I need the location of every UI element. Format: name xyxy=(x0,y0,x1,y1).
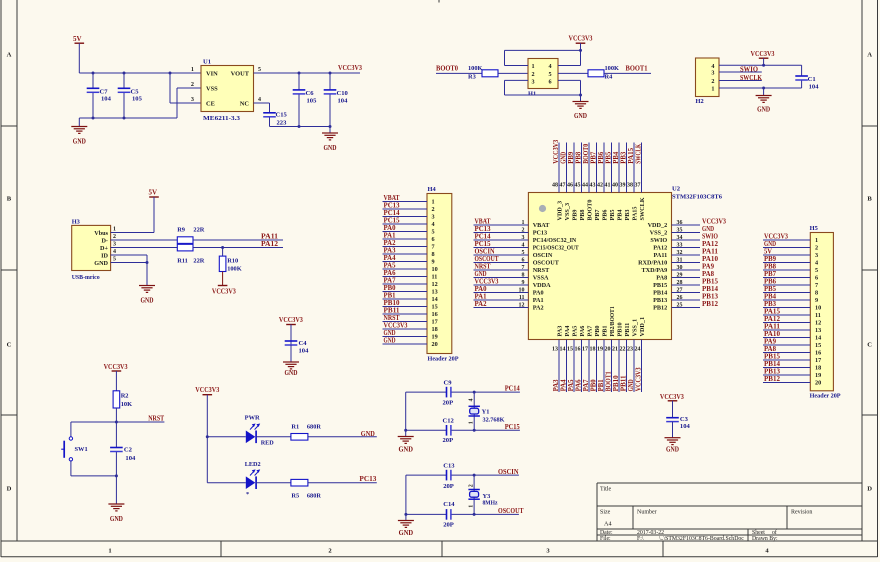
svg-text:BOOT0: BOOT0 xyxy=(436,65,458,73)
net label PA1 U2 left xyxy=(475,294,488,301)
svg-text:22: 22 xyxy=(620,346,626,352)
wire H4 pin 9 net PA4 xyxy=(383,261,428,263)
pin name PB14 U2 xyxy=(653,290,667,297)
wire left rail crystal2 xyxy=(405,475,407,514)
pin name PA5 U2 xyxy=(572,326,579,337)
svg-text:11: 11 xyxy=(432,274,438,281)
pin name PC13 U2 xyxy=(533,230,547,237)
svg-text:H2: H2 xyxy=(696,98,704,105)
net label PB10 H4 pin 15 xyxy=(384,300,401,307)
svg-text:File:: File: xyxy=(600,536,611,542)
net label PA7 U2 bottom xyxy=(583,379,590,392)
svg-text:BOOT0: BOOT0 xyxy=(587,200,594,221)
svg-text:PB5: PB5 xyxy=(609,209,616,220)
svg-text:VBAT: VBAT xyxy=(475,219,491,226)
svg-text:PA8: PA8 xyxy=(764,346,777,353)
svg-text:C15: C15 xyxy=(276,112,288,119)
svg-text:PA4: PA4 xyxy=(560,379,567,392)
svg-text:VCC3V3: VCC3V3 xyxy=(751,50,775,58)
svg-text:R4: R4 xyxy=(605,74,614,81)
svg-text:C10: C10 xyxy=(337,90,349,97)
svg-text:PA12: PA12 xyxy=(764,316,781,323)
svg-text:32.768K: 32.768K xyxy=(483,417,505,424)
svg-text:D-: D- xyxy=(101,237,108,244)
svg-text:GND: GND xyxy=(398,445,413,454)
wire H5 pin 1 net VCC3V3 xyxy=(763,239,810,241)
wire H4 pin 6 net PA1 xyxy=(383,238,428,240)
svg-text:LED2: LED2 xyxy=(245,461,261,468)
LED LED2 xyxy=(245,461,261,498)
svg-text:PA2: PA2 xyxy=(533,305,544,312)
pin number 8 U2 xyxy=(522,273,525,279)
svg-text:GND: GND xyxy=(361,430,375,438)
svg-text:19: 19 xyxy=(432,334,438,341)
net label GND H4 pin 19 xyxy=(384,330,396,337)
net label PA6 U2 bottom xyxy=(575,379,582,392)
svg-text:20P: 20P xyxy=(443,483,454,490)
svg-text:25: 25 xyxy=(677,303,683,309)
svg-text:1: 1 xyxy=(432,199,435,206)
pin name PC15/OSC32_OUT U2 xyxy=(533,245,580,252)
svg-text:41: 41 xyxy=(605,183,611,189)
svg-text:PC14/OSC32_IN: PC14/OSC32_IN xyxy=(533,237,577,244)
net label PA2 H4 pin 7 xyxy=(384,240,397,247)
net label PB1 U2 bottom xyxy=(598,379,605,392)
wire GND up to H1 pin6 xyxy=(558,80,582,96)
net label GND U2 bottom xyxy=(628,379,635,391)
pin name VDD_3 U2 xyxy=(557,201,564,221)
svg-text:PA3: PA3 xyxy=(553,379,560,392)
svg-text:PB11: PB11 xyxy=(624,323,631,337)
wire H5 pin 20 net PB12 xyxy=(763,382,810,384)
svg-text:PC14: PC14 xyxy=(475,234,492,241)
header H2 SWD xyxy=(696,58,720,105)
svg-text:C9: C9 xyxy=(444,379,453,386)
svg-text:SWCLK: SWCLK xyxy=(635,143,642,164)
power port VCC3V3 below R10 xyxy=(212,272,236,296)
MCU U2 STM32F103C8T6 body xyxy=(528,186,722,340)
wire H5 pin 3 net 5V xyxy=(763,254,810,256)
svg-text:NC: NC xyxy=(240,101,250,108)
svg-text:28: 28 xyxy=(677,280,683,286)
svg-text:1: 1 xyxy=(191,66,194,73)
svg-text:PB6: PB6 xyxy=(598,151,605,164)
pin number 3 U2 xyxy=(522,235,525,241)
crystal Y3 xyxy=(468,475,497,514)
svg-text:6: 6 xyxy=(549,78,552,85)
wire NRST xyxy=(116,421,164,423)
svg-text:PA0: PA0 xyxy=(475,286,488,293)
pin number 29 U2 xyxy=(677,273,683,279)
svg-text:VCC3V3: VCC3V3 xyxy=(384,323,409,330)
net label GND U2 right xyxy=(702,226,714,233)
wire U2 pin 46 net PB9 xyxy=(573,143,575,193)
svg-text:PC15: PC15 xyxy=(475,241,492,248)
svg-text:4: 4 xyxy=(113,249,116,255)
svg-text:100K: 100K xyxy=(605,65,620,72)
svg-text:H1: H1 xyxy=(528,91,536,98)
svg-text:Size: Size xyxy=(600,510,611,516)
svg-text:PA15: PA15 xyxy=(628,147,635,164)
wire H5 pin 7 net PB6 xyxy=(763,284,810,286)
wire H5 pin 5 net PB8 xyxy=(763,269,810,271)
svg-text:5V: 5V xyxy=(149,189,158,197)
svg-text:PC13: PC13 xyxy=(384,203,401,210)
svg-text:PC15: PC15 xyxy=(505,423,520,431)
net label PB7 U2 top xyxy=(590,151,597,164)
svg-text:PB1: PB1 xyxy=(384,293,397,300)
svg-text:R5: R5 xyxy=(291,493,299,500)
wire U2 pin 25 net PB12 xyxy=(672,307,701,309)
wire R5 to PC13 label xyxy=(308,482,377,484)
pin name PB15 U2 xyxy=(653,282,667,289)
svg-text:of: of xyxy=(772,529,777,536)
wire U2 pin 1 net VBAT xyxy=(474,224,529,226)
pin name VSS_3 U2 xyxy=(564,203,571,221)
svg-text:PA9: PA9 xyxy=(702,264,715,271)
wire U2 pin 8 net GND xyxy=(474,277,529,279)
svg-text:C12: C12 xyxy=(443,418,455,425)
svg-text:PB9: PB9 xyxy=(572,209,579,220)
svg-text:5: 5 xyxy=(113,257,116,263)
power port VCC3V3 C3 xyxy=(660,393,684,418)
net label PB5 H5 pin 8 xyxy=(764,286,777,293)
pin number 35 U2 xyxy=(677,228,683,234)
wire H1 pin3 to GND xyxy=(505,80,581,95)
svg-text:VBAT: VBAT xyxy=(533,222,551,229)
svg-text:VCC3V3: VCC3V3 xyxy=(104,363,128,371)
svg-text:VIN: VIN xyxy=(206,71,218,78)
svg-text:3: 3 xyxy=(711,70,714,77)
ground GND left xyxy=(71,118,87,146)
pin number 38 U2 xyxy=(627,183,633,189)
svg-text:14: 14 xyxy=(560,346,566,352)
svg-text:9: 9 xyxy=(432,259,435,266)
net label PB14 U2 right xyxy=(702,286,719,293)
svg-text:Vbus: Vbus xyxy=(94,230,108,237)
svg-text:OSCIN: OSCIN xyxy=(498,468,519,476)
svg-text:GND: GND xyxy=(324,144,337,152)
svg-text:PB13: PB13 xyxy=(653,297,667,304)
svg-text:104: 104 xyxy=(101,96,112,103)
svg-text:18: 18 xyxy=(432,326,438,333)
svg-text:GND: GND xyxy=(384,338,396,345)
svg-text:SWCLK: SWCLK xyxy=(740,74,762,82)
svg-text:F:\: F:\ xyxy=(637,536,644,542)
wire H4 pin 18 net VCC3V3 xyxy=(383,328,428,330)
wire U2 pin 28 net PB15 xyxy=(672,284,701,286)
svg-text:17: 17 xyxy=(582,346,588,352)
svg-text:35: 35 xyxy=(677,228,683,234)
capacitor C3 xyxy=(666,416,690,438)
svg-text:43: 43 xyxy=(590,183,596,189)
svg-text:PB9: PB9 xyxy=(568,151,575,164)
wire H5 pin 18 net PB14 xyxy=(763,367,810,369)
net label PA15 H5 pin 11 xyxy=(764,309,781,316)
pin number 5 U2 xyxy=(522,250,525,256)
svg-text:PB4: PB4 xyxy=(613,151,620,164)
wire U2 pin 29 net PA8 xyxy=(672,277,701,279)
svg-text:20P: 20P xyxy=(443,437,454,444)
svg-text:PB3: PB3 xyxy=(624,209,631,220)
wire H4 pin 17 net NRST xyxy=(383,321,428,323)
wire U2 pin 4 net PC15 xyxy=(474,247,529,249)
svg-text:PB7: PB7 xyxy=(590,151,597,164)
pin name PB5 U2 xyxy=(609,209,616,220)
net label PB3 U2 top xyxy=(620,151,627,164)
resistor R9 22R xyxy=(177,227,205,244)
pin name PA3 U2 xyxy=(557,326,564,337)
svg-text:5: 5 xyxy=(258,67,261,73)
net label PC14 xyxy=(505,385,520,393)
svg-text:USB-mrico: USB-mrico xyxy=(72,274,100,281)
net label PA11 USB xyxy=(261,233,279,241)
svg-text:16: 16 xyxy=(575,346,581,352)
wire H4 pin 20 net GND xyxy=(383,343,428,345)
wire U2 pin 35 net GND xyxy=(672,232,701,234)
net label PC15 xyxy=(505,423,520,431)
pin name VSSA U2 xyxy=(533,275,549,282)
svg-text:VCC3V3: VCC3V3 xyxy=(475,279,500,286)
pin number 47 U2 xyxy=(560,183,566,189)
svg-text:31: 31 xyxy=(677,258,683,264)
svg-text:16: 16 xyxy=(815,350,821,357)
net label PA15 U2 top xyxy=(628,147,635,164)
pin name PB2/BOOT1 U2 xyxy=(609,306,616,336)
svg-text:R1: R1 xyxy=(291,424,299,431)
svg-text:17: 17 xyxy=(815,357,821,364)
net label PC13 U2 left xyxy=(475,226,492,233)
svg-text:PA5: PA5 xyxy=(568,379,575,392)
wire H5 pin 2 net GND xyxy=(763,247,810,249)
wire U2 pin 43 net PB7 xyxy=(596,143,598,193)
svg-text:PB6: PB6 xyxy=(602,209,609,220)
svg-text:C4: C4 xyxy=(299,340,308,347)
svg-text:PC15: PC15 xyxy=(384,218,401,225)
ground GND regulator right xyxy=(322,127,338,153)
svg-text:OSCIN: OSCIN xyxy=(475,249,495,256)
pin number 10 U2 xyxy=(519,288,525,294)
svg-text:GND: GND xyxy=(574,112,587,120)
svg-text:VCC3V3: VCC3V3 xyxy=(635,367,642,392)
svg-text:PA11: PA11 xyxy=(654,252,668,259)
LED PWR red xyxy=(207,415,274,447)
svg-text:48: 48 xyxy=(552,183,558,189)
svg-text:10: 10 xyxy=(815,305,821,312)
svg-text:2: 2 xyxy=(469,484,475,487)
pin number 36 U2 xyxy=(677,220,683,226)
svg-text:PB5: PB5 xyxy=(605,151,612,164)
svg-text:15: 15 xyxy=(432,304,438,311)
pin number 16 U2 xyxy=(575,346,581,352)
svg-text:U2: U2 xyxy=(672,186,681,193)
svg-text:PA1: PA1 xyxy=(533,297,544,304)
svg-text:PB3: PB3 xyxy=(620,151,627,164)
wire U2 pin 5 net OSCIN xyxy=(474,254,529,256)
pin number 24 U2 xyxy=(635,346,641,352)
svg-text:VCC3V3: VCC3V3 xyxy=(702,219,727,226)
svg-text:PC13: PC13 xyxy=(475,226,492,233)
net label GND LED1 xyxy=(361,430,375,438)
resistor R4 100K xyxy=(588,65,619,81)
svg-text:104: 104 xyxy=(299,347,310,354)
net label PA5 H4 pin 10 xyxy=(384,263,397,270)
pin name PB6 U2 xyxy=(602,209,609,220)
svg-text:PA9: PA9 xyxy=(764,339,777,346)
svg-text:PWR: PWR xyxy=(245,415,260,422)
power port 5V USB xyxy=(149,189,159,233)
svg-text:PA7: PA7 xyxy=(583,379,590,392)
ground GND reset xyxy=(108,476,124,523)
svg-text:1: 1 xyxy=(469,505,475,508)
pin name PA12 U2 xyxy=(653,245,667,252)
svg-text:PA0: PA0 xyxy=(533,290,544,297)
svg-text:PB5: PB5 xyxy=(764,286,777,293)
net label SWIO xyxy=(740,66,759,74)
net label PB8 H5 pin 5 xyxy=(764,264,777,271)
svg-text:15: 15 xyxy=(815,342,821,349)
wire U2 pin 40 net PB4 xyxy=(618,143,620,193)
svg-text:17: 17 xyxy=(432,319,438,326)
svg-text:1: 1 xyxy=(469,421,475,424)
svg-text:7: 7 xyxy=(815,282,818,289)
wire H4 pin 16 net PB11 xyxy=(383,313,428,315)
wire U2 pin 37 net SWCLK xyxy=(641,143,643,193)
svg-text:CE: CE xyxy=(206,101,215,108)
wire H2 pin2 SWCLK xyxy=(719,80,762,82)
svg-text:GND: GND xyxy=(702,226,714,233)
pin number 12 U2 xyxy=(519,303,525,309)
wire LED1 to R1 xyxy=(256,436,291,438)
svg-text:4: 4 xyxy=(549,63,552,70)
svg-text:GND: GND xyxy=(560,152,567,164)
pin number 22 U2 xyxy=(620,346,626,352)
svg-text:PB3: PB3 xyxy=(764,301,777,308)
svg-text:VCC3V3: VCC3V3 xyxy=(195,386,219,394)
wire U2 pin 32 net PA11 xyxy=(672,254,701,256)
svg-text:12: 12 xyxy=(519,303,525,309)
net label GND U2 top xyxy=(560,152,567,164)
svg-text:VCC3V3: VCC3V3 xyxy=(279,316,303,324)
svg-text:1: 1 xyxy=(711,86,714,93)
svg-text:ME6211-3.3: ME6211-3.3 xyxy=(203,115,241,122)
wire U2 pin 3 net PC14 xyxy=(474,239,529,241)
wire H5 pin 6 net PB7 xyxy=(763,277,810,279)
pin name PA8 U2 xyxy=(656,275,667,282)
pin name PA7 U2 xyxy=(587,326,594,337)
svg-text:PA7: PA7 xyxy=(587,326,594,337)
wire H3 GND pin xyxy=(111,261,149,264)
net label PB0 H4 pin 13 xyxy=(384,285,397,292)
svg-text:PA2: PA2 xyxy=(384,240,397,247)
wire H5 pin 8 net PB5 xyxy=(763,292,810,294)
svg-text:PB13: PB13 xyxy=(764,369,781,376)
wire U2 pin 6 net OSCOUT xyxy=(474,262,529,264)
svg-text:PA12: PA12 xyxy=(653,245,667,252)
svg-text:TXD/PA9: TXD/PA9 xyxy=(642,267,668,274)
net label PA0 H4 pin 5 xyxy=(384,225,397,232)
svg-text:18: 18 xyxy=(815,365,821,372)
wire U2 pin 2 net PC13 xyxy=(474,232,529,234)
svg-text:PC14: PC14 xyxy=(384,210,401,217)
svg-text:GND: GND xyxy=(141,297,154,305)
pin name RXD/PA10 U2 xyxy=(638,260,667,267)
resistor R1 680R xyxy=(291,424,321,441)
svg-text:PB4: PB4 xyxy=(764,294,777,301)
svg-text:23: 23 xyxy=(627,346,633,352)
pin number 25 U2 xyxy=(677,303,683,309)
svg-text:22R: 22R xyxy=(193,258,204,265)
svg-text:3: 3 xyxy=(522,235,525,241)
pin number 27 U2 xyxy=(677,288,683,294)
capacitor C1 xyxy=(795,65,819,90)
pin number 42 U2 xyxy=(597,183,603,189)
svg-text:C13: C13 xyxy=(443,462,455,469)
wire U2 pin 18 net PB0 xyxy=(596,340,598,393)
svg-text:PB1: PB1 xyxy=(602,325,609,336)
svg-text:21: 21 xyxy=(612,346,618,352)
pin name PA15 U2 xyxy=(632,207,639,221)
svg-text:PA6: PA6 xyxy=(384,270,397,277)
net label PC15 H4 pin 4 xyxy=(384,218,401,225)
svg-text:10: 10 xyxy=(519,288,525,294)
svg-text:BOOT1: BOOT1 xyxy=(626,65,648,73)
svg-text:R2: R2 xyxy=(121,393,129,400)
net label SWCLK U2 top xyxy=(635,143,642,164)
svg-text:7: 7 xyxy=(522,265,525,271)
net label PB9 H5 pin 4 xyxy=(764,256,777,263)
svg-text:PA10: PA10 xyxy=(764,331,781,338)
wire U2 pin 45 net PB8 xyxy=(581,143,583,193)
pin name NRST U2 xyxy=(533,267,550,274)
net label SWIO U2 right xyxy=(702,234,718,241)
pin number 14 U2 xyxy=(560,346,566,352)
svg-text:H4: H4 xyxy=(428,186,437,193)
svg-text:PB7: PB7 xyxy=(594,209,601,220)
power port 5V xyxy=(73,35,84,73)
svg-text:20: 20 xyxy=(432,341,438,348)
svg-text:OSCOUT: OSCOUT xyxy=(498,507,524,515)
svg-text:PB12: PB12 xyxy=(764,376,781,383)
svg-text:PA5: PA5 xyxy=(384,263,397,270)
net label PB0 U2 bottom xyxy=(590,379,597,392)
pin name PB8 U2 xyxy=(579,209,586,220)
pin number 45 U2 xyxy=(575,183,581,189)
svg-text:BOOT1: BOOT1 xyxy=(605,371,612,392)
wire NRST node to switch xyxy=(71,422,117,437)
pin name PA0 U2 xyxy=(533,290,544,297)
wire H5 pin 11 net PA15 xyxy=(763,314,810,316)
net label VBAT H4 pin 1 xyxy=(384,195,400,202)
svg-text:VCC3V3: VCC3V3 xyxy=(338,64,362,72)
svg-text:A4: A4 xyxy=(604,521,612,528)
svg-text:1: 1 xyxy=(815,237,818,244)
wire H4 pin 12 net PA7 xyxy=(383,283,428,285)
pin name PB3 U2 xyxy=(624,209,631,220)
svg-text:3: 3 xyxy=(432,214,435,221)
capacitor C10 xyxy=(324,73,349,127)
wire 5V rail to U1 VIN xyxy=(79,72,201,74)
net label PB3 H5 pin 10 xyxy=(764,301,777,308)
svg-text:7: 7 xyxy=(432,244,435,251)
pin name PB13 U2 xyxy=(653,297,667,304)
wire H3 ID to GND junction xyxy=(111,255,147,263)
svg-text:2: 2 xyxy=(711,78,714,85)
svg-text:3: 3 xyxy=(113,242,116,248)
wire R9 to PA11 xyxy=(193,239,283,241)
ground GND crystal1 xyxy=(398,430,414,453)
svg-text:PA3: PA3 xyxy=(384,248,397,255)
